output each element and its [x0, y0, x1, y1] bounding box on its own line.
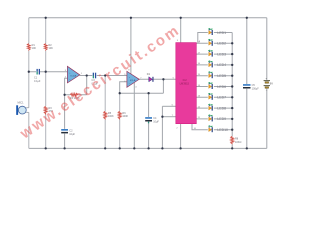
wire IC V+ top pin	[180, 18, 182, 43]
svg-text:LED6: LED6	[217, 85, 226, 89]
capacitor C4	[145, 117, 159, 123]
svg-text:LED1: LED1	[217, 31, 226, 35]
wire op-amp1 output	[80, 75, 127, 77]
svg-text:4: 4	[135, 86, 137, 88]
LED LED7	[208, 93, 213, 100]
wire feedback horizontal R4 leads	[65, 94, 87, 96]
resistor R6	[118, 111, 128, 119]
capacitor C1	[34, 69, 41, 83]
svg-text:10KΩ: 10KΩ	[235, 141, 241, 144]
LED LED1	[208, 29, 213, 36]
svg-text:D1: D1	[147, 73, 151, 76]
node LED bus junctions	[231, 42, 233, 131]
svg-text:LED3: LED3	[217, 52, 226, 56]
diode D1	[147, 73, 154, 82]
svg-text:3: 3	[177, 40, 179, 42]
svg-text:2: 2	[176, 128, 178, 130]
battery B1 9V	[264, 77, 274, 93]
wire LED anode bus	[231, 33, 233, 149]
capacitor C5	[243, 84, 259, 90]
wire feedback2 horizontal	[120, 92, 164, 94]
svg-text:0.1µF: 0.1µF	[34, 80, 41, 83]
resistor R8 LED bus	[231, 136, 242, 144]
wire LED row 10	[192, 124, 232, 130]
wire bottom ground rail	[29, 147, 267, 149]
wire LED row 6	[196, 86, 232, 88]
wire C2 column	[64, 95, 66, 149]
LED LED2	[208, 39, 213, 46]
svg-text:100K: 100K	[122, 115, 128, 118]
wire C5 column	[246, 18, 248, 149]
node mid circuit junctions	[28, 71, 165, 118]
wire op-amp2 inverting input	[120, 82, 127, 93]
svg-text:IC1:A: IC1:A	[71, 75, 77, 78]
capacitor C2	[61, 129, 75, 136]
wire op-amp1 inverting input	[65, 78, 68, 95]
wire R2 R3 column	[45, 18, 47, 149]
svg-text:LED5: LED5	[217, 74, 226, 78]
svg-text:LED10: LED10	[217, 128, 228, 132]
svg-text:www.eleccircuit.com: www.eleccircuit.com	[16, 21, 183, 142]
LED LED8	[208, 104, 213, 111]
wire IC pin6	[162, 105, 175, 107]
svg-text:10µF: 10µF	[153, 120, 159, 123]
LED LED3	[208, 50, 213, 57]
wire LED row 7	[196, 96, 232, 98]
resistor R5	[104, 111, 114, 119]
wire LED row 4	[196, 64, 232, 66]
svg-text:1: 1	[81, 73, 83, 75]
svg-text:LM3915: LM3915	[180, 82, 190, 86]
LED LED4	[208, 61, 213, 68]
svg-text:LED8: LED8	[217, 106, 226, 110]
wire riser to diode line	[162, 79, 164, 93]
wire input signal to op-amp	[29, 71, 68, 73]
svg-text:100µF: 100µF	[252, 87, 260, 90]
resistor R4	[70, 93, 80, 100]
wire pin67 ground column	[161, 106, 163, 148]
IC U2 LM3915 body	[172, 40, 201, 129]
LED LED5	[208, 72, 213, 79]
node junction dots top rail	[45, 17, 248, 19]
wire LED row 1	[198, 33, 232, 43]
capacitor C3	[92, 73, 99, 86]
LED LED10	[208, 126, 213, 133]
op-amp IC1:A	[65, 66, 83, 83]
wire mic column upper	[28, 18, 30, 108]
svg-text:−: −	[266, 89, 268, 93]
wire LED row 2	[196, 42, 232, 44]
LED LED6	[208, 83, 213, 90]
wire feedback vertical	[86, 76, 88, 95]
svg-text:LED2: LED2	[217, 42, 226, 46]
wire battery column	[266, 18, 268, 149]
wire R6 column	[119, 93, 121, 148]
microphone MIC1	[16, 102, 29, 115]
svg-text:10µF: 10µF	[69, 133, 75, 136]
wire op-amp2 V- pin	[133, 83, 135, 149]
op-amp IC1:B	[124, 70, 142, 89]
wire C4 column	[148, 93, 150, 148]
wire LED row 3	[196, 53, 232, 55]
svg-text:LED7: LED7	[217, 96, 226, 100]
wire R5 column	[104, 76, 106, 149]
wire top supply rail	[29, 17, 267, 19]
IC right pin numbers	[194, 42, 201, 130]
wire IC pin7	[162, 116, 175, 118]
wire IC ground bottom pin	[180, 124, 182, 149]
svg-text:9V: 9V	[270, 81, 274, 85]
wire mic column lower	[28, 112, 30, 148]
svg-text:IC2: IC2	[183, 78, 188, 82]
resistor R1	[27, 44, 36, 51]
svg-text:MIC1: MIC1	[18, 102, 25, 105]
svg-text:10K: 10K	[32, 47, 37, 50]
svg-text:IC1:B: IC1:B	[130, 80, 136, 82]
wire LED row 5	[196, 75, 232, 77]
wire op-amp2 V+ pin	[130, 18, 132, 75]
node junction dots bottom rail	[45, 147, 248, 149]
wire LED row 9	[196, 118, 232, 120]
svg-text:LED4: LED4	[217, 63, 226, 67]
svg-text:LED9: LED9	[217, 117, 226, 121]
resistor R3	[44, 106, 53, 114]
wire LED row 8	[196, 107, 232, 109]
wire op-amp2 output through diode to IC	[139, 78, 176, 80]
resistor R2	[44, 44, 53, 51]
svg-text:10K: 10K	[49, 47, 54, 50]
LED LED9	[208, 115, 213, 122]
svg-text:100K: 100K	[108, 115, 114, 118]
